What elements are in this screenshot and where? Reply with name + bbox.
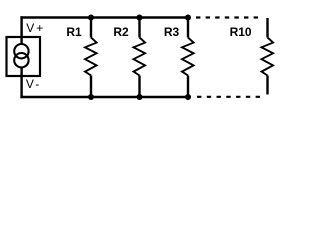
svg-text:R3: R3 <box>164 25 180 39</box>
svg-text:R1: R1 <box>66 25 82 39</box>
svg-text:V-: V- <box>26 77 41 91</box>
svg-text:R10: R10 <box>230 25 252 39</box>
svg-text:R2: R2 <box>113 25 129 39</box>
svg-text:V+: V+ <box>26 21 45 35</box>
